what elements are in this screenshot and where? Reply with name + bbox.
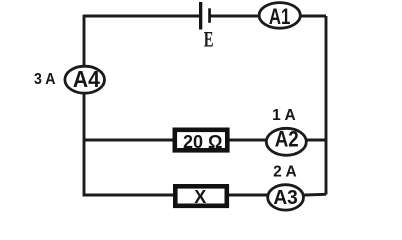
svg-text:2 A: 2 A bbox=[273, 163, 297, 180]
svg-text:A1: A1 bbox=[269, 4, 291, 29]
svg-text:E: E bbox=[204, 26, 214, 51]
svg-text:3 A: 3 A bbox=[34, 71, 56, 88]
svg-text:X: X bbox=[194, 187, 206, 207]
svg-text:A3: A3 bbox=[273, 187, 298, 209]
svg-text:A4: A4 bbox=[73, 66, 100, 92]
svg-text:20 Ω: 20 Ω bbox=[183, 132, 223, 152]
svg-text:A2: A2 bbox=[275, 127, 299, 152]
svg-text:1 A: 1 A bbox=[272, 107, 296, 124]
